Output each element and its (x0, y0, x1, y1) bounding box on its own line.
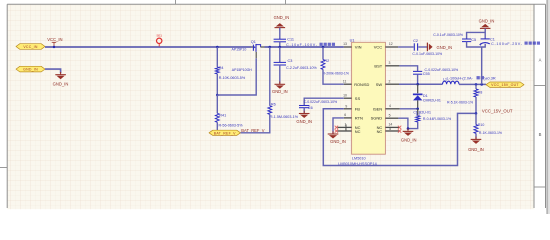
svg-text:SW: SW (376, 82, 383, 87)
svg-text:GND_IN: GND_IN (23, 68, 38, 72)
port GND_IN (16, 66, 45, 72)
svg-text:C-0.1uF-0603-10%: C-0.1uF-0603-10% (412, 52, 442, 56)
junction rail-C11 (279, 46, 282, 49)
text CMR2U-01 on wire (413, 110, 431, 114)
wire caps to output rail (481, 47, 483, 84)
svg-text:R-1.5M-0603-1%: R-1.5M-0603-1% (270, 115, 299, 119)
resistor R41 (215, 95, 243, 128)
svg-text:BST: BST (374, 63, 382, 68)
svg-text:GND_IN: GND_IN (468, 147, 484, 152)
wire gnd stem to cap bus (484, 28, 486, 32)
svg-text:SGND: SGND (371, 116, 383, 121)
svg-text:GND_IN: GND_IN (274, 15, 290, 20)
svg-text:GND_IN: GND_IN (53, 81, 69, 86)
capacitor C1 (479, 37, 540, 46)
junction ISEN-D1-R7 (416, 108, 419, 111)
inductor L1 (443, 76, 496, 84)
svg-text:R-56-0603-5%: R-56-0603-5% (219, 124, 244, 128)
wire VCC_IN rail (45, 46, 252, 48)
wire C3 to ground (279, 65, 281, 84)
svg-text:GND_IN: GND_IN (437, 45, 453, 50)
svg-text:A: A (539, 58, 542, 63)
svg-text:AP15P10: AP15P10 (232, 47, 247, 51)
svg-text:R41: R41 (219, 114, 226, 118)
wire C55 to SW (417, 74, 419, 84)
ground GND_IN below C3 (272, 82, 288, 94)
resistor R2 (321, 59, 349, 76)
svg-text:R7: R7 (416, 113, 421, 117)
svg-text:GND_IN: GND_IN (479, 18, 495, 23)
junction rail-R6 (269, 46, 272, 49)
capacitor C2 (412, 39, 442, 56)
svg-text:R-1K-0603-1%: R-1K-0603-1% (479, 131, 502, 135)
svg-text:8: 8 (389, 127, 391, 131)
svg-text:R-0.44R-0603-1%: R-0.44R-0603-1% (423, 117, 451, 121)
wire rail to R4 (216, 47, 218, 67)
resistor R7 (416, 109, 451, 122)
svg-text:B: B (539, 132, 542, 137)
svg-text:VCC: VCC (374, 45, 383, 50)
svg-text:NC: NC (377, 129, 383, 134)
svg-text:12: 12 (389, 42, 393, 46)
U1 left NC pins with no-connect marks (335, 123, 352, 133)
svg-text:VCC_IN: VCC_IN (47, 37, 62, 42)
svg-text:BAT_REF_V: BAT_REF_V (214, 131, 236, 135)
net label anchor tick (52, 42, 57, 46)
svg-text:)±0.3R: )±0.3R (484, 77, 496, 81)
capacitor C55 (413, 68, 458, 76)
junction SW-C55-D1 (416, 83, 419, 86)
svg-text:C-10uF-100V-: C-10uF-100V- (286, 43, 318, 47)
junction rail-R4 (216, 46, 219, 49)
svg-text:10: 10 (343, 94, 347, 98)
svg-text:GND_IN: GND_IN (272, 89, 288, 94)
wire SW to inductor (399, 83, 443, 85)
svg-text:C-0.1uF-0603-10%: C-0.1uF-0603-10% (433, 33, 463, 37)
resistor R8 (447, 84, 482, 104)
svg-text:CMR2U-01: CMR2U-01 (423, 98, 441, 102)
svg-text:C5: C5 (471, 38, 476, 42)
capacitor C6 (299, 100, 337, 110)
svg-text:C11: C11 (287, 38, 294, 42)
svg-text:C55: C55 (423, 72, 430, 76)
svg-text:Q1: Q1 (251, 40, 256, 44)
svg-text:RTN: RTN (355, 116, 363, 121)
svg-text:GND_IN: GND_IN (401, 138, 417, 143)
junction divider-gate (216, 94, 219, 97)
svg-text:VCC_15V_OUT: VCC_15V_OUT (482, 109, 513, 114)
svg-text:C1: C1 (490, 37, 495, 41)
svg-text:C-2.2uF-0603-10%: C-2.2uF-0603-10% (286, 66, 317, 70)
svg-text:RON/SD: RON/SD (354, 82, 369, 87)
net label VCC_15V_OUT (482, 109, 513, 114)
wire FB net (323, 109, 476, 166)
diode D1 CMR2U-01 (413, 94, 441, 103)
svg-text:VCC_IN: VCC_IN (23, 45, 38, 49)
svg-text:VIN: VIN (355, 45, 362, 50)
svg-text:R-200k-0603-1%: R-200k-0603-1% (323, 71, 349, 75)
net label BAT_REF_V (241, 128, 264, 133)
svg-text:L-100uH-(2.0A-: L-100uH-(2.0A- (447, 77, 474, 81)
capacitor C11 (274, 38, 335, 47)
svg-text:11: 11 (343, 79, 347, 83)
junction on rail at label (53, 46, 55, 48)
ground GND_IN below RTN (328, 131, 346, 144)
wire R4 to junction (216, 74, 218, 95)
wire rail to R6 (269, 47, 271, 106)
wire C11 to rail (279, 42, 281, 47)
svg-text:D1: D1 (423, 94, 428, 98)
wire VCC to C2 (398, 46, 414, 48)
ground GND_IN above C11 (274, 15, 290, 30)
wire GND_IN port to ground (45, 69, 61, 73)
junction rail-R2 (322, 46, 325, 49)
U1 right NC pins with no-connect marks (385, 123, 401, 133)
wire R41 to port (216, 122, 218, 130)
svg-text:R-10K-0603-5%: R-10K-0603-5% (219, 76, 246, 80)
port VCC_IN (16, 44, 45, 50)
U1 right pin stubs (385, 42, 399, 118)
svg-text:SE1: SE1 (156, 34, 162, 38)
svg-text:LM5010: LM5010 (352, 157, 366, 161)
wire R7 to ground node (408, 122, 418, 129)
wire SS to C6 (304, 98, 344, 105)
ground GND_IN below C6 (296, 111, 312, 124)
resistor R4 (215, 66, 245, 80)
ground GND_IN left (53, 72, 69, 86)
op-amp U1 LM5010 body (350, 38, 386, 154)
svg-text:C-0.022uF-0603-10%: C-0.022uF-0603-10% (304, 100, 338, 104)
wire C2 to ground (418, 46, 427, 48)
wire R6 to BAT_REF_V (241, 114, 270, 132)
svg-text:AP15P10GH: AP15P10GH (232, 68, 253, 72)
svg-text:R8: R8 (478, 91, 483, 95)
svg-text:U1: U1 (350, 38, 355, 42)
svg-text:C3: C3 (288, 59, 293, 63)
test point SE1 (156, 34, 162, 47)
svg-text:SS: SS (355, 96, 361, 101)
wire Q1 drain to VIN (265, 46, 344, 48)
capacitor C3 (274, 59, 318, 70)
wire RTN to ground (333, 118, 344, 133)
svg-text:C2: C2 (413, 39, 418, 43)
ground GND_IN below R10 (468, 137, 484, 152)
net label VCC_IN (47, 37, 62, 42)
junction output-R8 (475, 83, 478, 86)
wire rail to R2 (322, 47, 324, 60)
svg-text:ISEN: ISEN (373, 107, 382, 112)
U1 left pin stubs (343, 42, 352, 118)
wire cap bottom bus (467, 42, 486, 47)
ground GND_IN right of C2 (427, 43, 452, 52)
svg-text:9: 9 (345, 105, 347, 109)
junction output-caps (480, 83, 483, 86)
svg-text:R6: R6 (271, 102, 276, 106)
svg-text:GND_IN: GND_IN (296, 119, 312, 124)
U1 part labels (338, 157, 376, 166)
svg-text:5: 5 (389, 114, 391, 118)
svg-text:6: 6 (344, 113, 346, 117)
svg-text:3: 3 (388, 61, 390, 65)
capacitor C5 (433, 33, 476, 42)
wire ISEN (400, 108, 418, 110)
wire cap top bus (467, 32, 486, 39)
ground GND_IN below SGND (401, 129, 417, 143)
svg-text:VCC_15V_OUT: VCC_15V_OUT (491, 83, 519, 87)
wire SGND to ground node (398, 118, 408, 128)
wire R8 to FB node (475, 97, 477, 113)
svg-text:C-100uF-25V-: C-100uF-25V- (491, 42, 523, 46)
svg-text:C-0.022uF-0603-10%: C-0.022uF-0603-10% (425, 68, 459, 72)
svg-text:FB: FB (355, 107, 360, 112)
wire inductor to output (459, 83, 486, 85)
resistor R6 (268, 102, 299, 118)
port BAT_REF_V (209, 130, 241, 135)
wire gnd to C11 (279, 28, 281, 39)
transistor Q1 AP15P10 (232, 40, 265, 72)
svg-text:4: 4 (389, 104, 391, 108)
wire R10 to ground (475, 133, 477, 139)
ground GND_IN above C1 (479, 18, 495, 31)
svg-text:GND_IN: GND_IN (330, 139, 346, 144)
svg-text:BAT_REF_V: BAT_REF_V (241, 128, 264, 133)
svg-text:13: 13 (343, 42, 347, 46)
wire divider to Q1 gate (217, 58, 256, 95)
port VCC_15V_OUT (486, 82, 524, 87)
svg-text:C6: C6 (308, 106, 313, 110)
svg-text:R4: R4 (219, 66, 224, 70)
junction SGND-R7 (407, 127, 410, 130)
svg-text:R10: R10 (478, 123, 484, 127)
junction FB divider (475, 112, 478, 115)
wire R2 to RON/SD (323, 69, 344, 84)
wire SW to D1 (417, 84, 419, 93)
svg-text:NC: NC (355, 129, 361, 134)
svg-text:2: 2 (388, 79, 390, 83)
wire BST to C55 (399, 66, 417, 71)
svg-text:R2: R2 (324, 59, 329, 63)
svg-text:R-5.1K-0603-1%: R-5.1K-0603-1% (447, 100, 473, 104)
wire D1 anode to ISEN node (417, 100, 419, 108)
wire rail to C3 (279, 47, 281, 62)
wire C6 to ground (303, 108, 305, 113)
resistor R10 (474, 113, 502, 135)
